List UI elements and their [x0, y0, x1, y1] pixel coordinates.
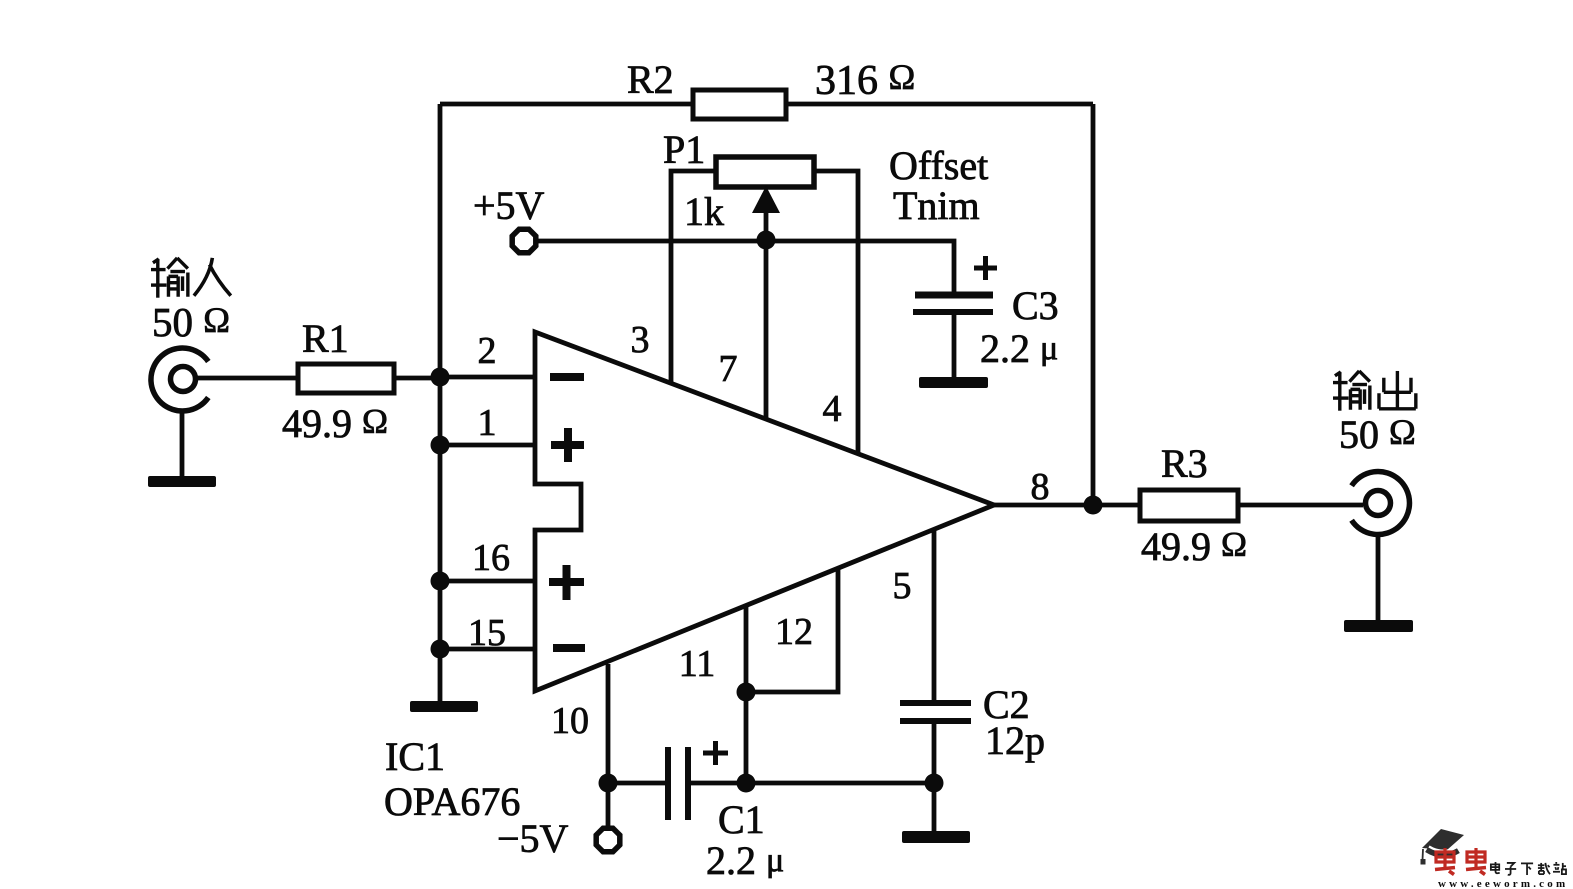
svg-text:C3: C3 [1012, 283, 1059, 328]
svg-text:10: 10 [551, 700, 589, 742]
svg-text:49.9 Ω: 49.9 Ω [1141, 524, 1247, 569]
svg-text:8: 8 [1031, 466, 1050, 508]
svg-text:R1: R1 [302, 316, 349, 361]
svg-text:7: 7 [719, 348, 738, 390]
svg-text:2: 2 [478, 330, 497, 372]
svg-text:15: 15 [468, 612, 506, 654]
svg-text:−5V: −5V [497, 816, 569, 861]
svg-text:www.eeworm.com: www.eeworm.com [1438, 878, 1568, 889]
svg-text:11: 11 [679, 643, 716, 685]
svg-text:C1: C1 [718, 797, 765, 842]
svg-text:2.2 μ: 2.2 μ [706, 838, 784, 883]
svg-text:12: 12 [775, 611, 813, 653]
svg-text:1k: 1k [684, 189, 724, 234]
svg-text:Offset: Offset [889, 143, 988, 188]
svg-text:P1: P1 [663, 127, 705, 172]
svg-text:R2: R2 [627, 57, 674, 102]
svg-text:12p: 12p [985, 718, 1045, 763]
svg-text:1: 1 [478, 402, 497, 444]
svg-text:4: 4 [823, 388, 842, 430]
svg-text:5: 5 [893, 565, 912, 607]
svg-text:50 Ω: 50 Ω [1339, 412, 1416, 457]
svg-text:2.2 μ: 2.2 μ [980, 326, 1058, 371]
svg-text:IC1: IC1 [385, 734, 445, 779]
svg-text:R3: R3 [1161, 441, 1208, 486]
svg-text:Tnim: Tnim [893, 183, 980, 228]
svg-text:49.9 Ω: 49.9 Ω [282, 401, 388, 446]
svg-text:50 Ω: 50 Ω [152, 299, 230, 345]
svg-text:+5V: +5V [473, 183, 545, 228]
svg-text:316 Ω: 316 Ω [815, 57, 915, 104]
svg-text:16: 16 [472, 537, 510, 579]
svg-text:3: 3 [631, 319, 650, 361]
